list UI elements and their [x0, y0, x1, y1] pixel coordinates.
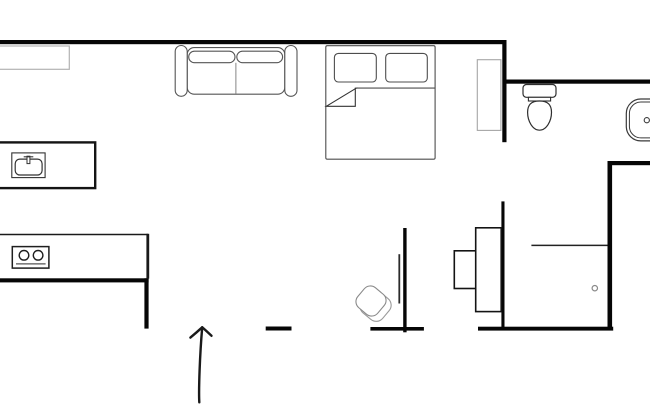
- bed pillow left: [334, 53, 376, 82]
- wall kitchen horizontal: [0, 278, 149, 282]
- door leaf line: [398, 254, 400, 303]
- arrow barb right: [202, 327, 211, 336]
- wall bottom mid segment: [370, 327, 424, 331]
- toilet bowl: [528, 101, 552, 130]
- island sink faucet: [27, 156, 30, 163]
- wall top: [0, 40, 507, 44]
- sofa back cushion right: [237, 51, 283, 63]
- wall bottom right segment: [478, 327, 613, 331]
- wardrobe: [477, 60, 501, 131]
- kitchen counter top edge: [0, 234, 148, 236]
- wall bathroom top horizontal: [506, 80, 650, 84]
- sofa back cushion left: [189, 51, 235, 63]
- island: [0, 142, 95, 188]
- toilet tank: [523, 85, 556, 98]
- wall bottom small segment: [266, 327, 292, 331]
- kitchen counter right edge: [146, 234, 149, 279]
- stove burner right: [33, 251, 43, 261]
- bed blanket line: [356, 87, 435, 89]
- wall right-mid horizontal: [608, 161, 650, 165]
- counter top-left: [0, 46, 69, 69]
- wall bathroom-left vertical: [502, 40, 506, 142]
- wall kitchen vertical: [144, 278, 148, 328]
- bathroom sink inner: [629, 102, 650, 138]
- closet rod line: [531, 244, 607, 246]
- island sink basin: [15, 159, 42, 175]
- stove burner left: [19, 251, 29, 261]
- bathroom sink drain: [644, 118, 649, 123]
- bed: [326, 46, 435, 160]
- stove bar: [16, 263, 46, 265]
- bathroom sink outer: [626, 99, 650, 141]
- bed fold corner: [326, 88, 356, 106]
- desk chair: [454, 251, 475, 289]
- desk: [476, 228, 502, 312]
- wall mid vertical bar: [403, 228, 406, 332]
- island sink outer: [12, 153, 45, 178]
- wall right vertical: [608, 161, 613, 331]
- toilet neck: [528, 97, 550, 101]
- bed pillow right: [386, 53, 428, 82]
- island sink faucet bar: [24, 156, 34, 158]
- wall desk vertical: [501, 201, 504, 327]
- stove: [12, 247, 49, 269]
- door knob circle: [592, 286, 597, 291]
- sofa right armrest: [285, 46, 297, 97]
- arrow barb left: [190, 327, 202, 337]
- sofa seam: [235, 63, 237, 94]
- arrow: [199, 328, 202, 403]
- lounge chair back: [357, 287, 395, 325]
- sofa body: [187, 48, 285, 95]
- sofa left armrest: [175, 46, 187, 97]
- lounge chair seat: [353, 283, 390, 320]
